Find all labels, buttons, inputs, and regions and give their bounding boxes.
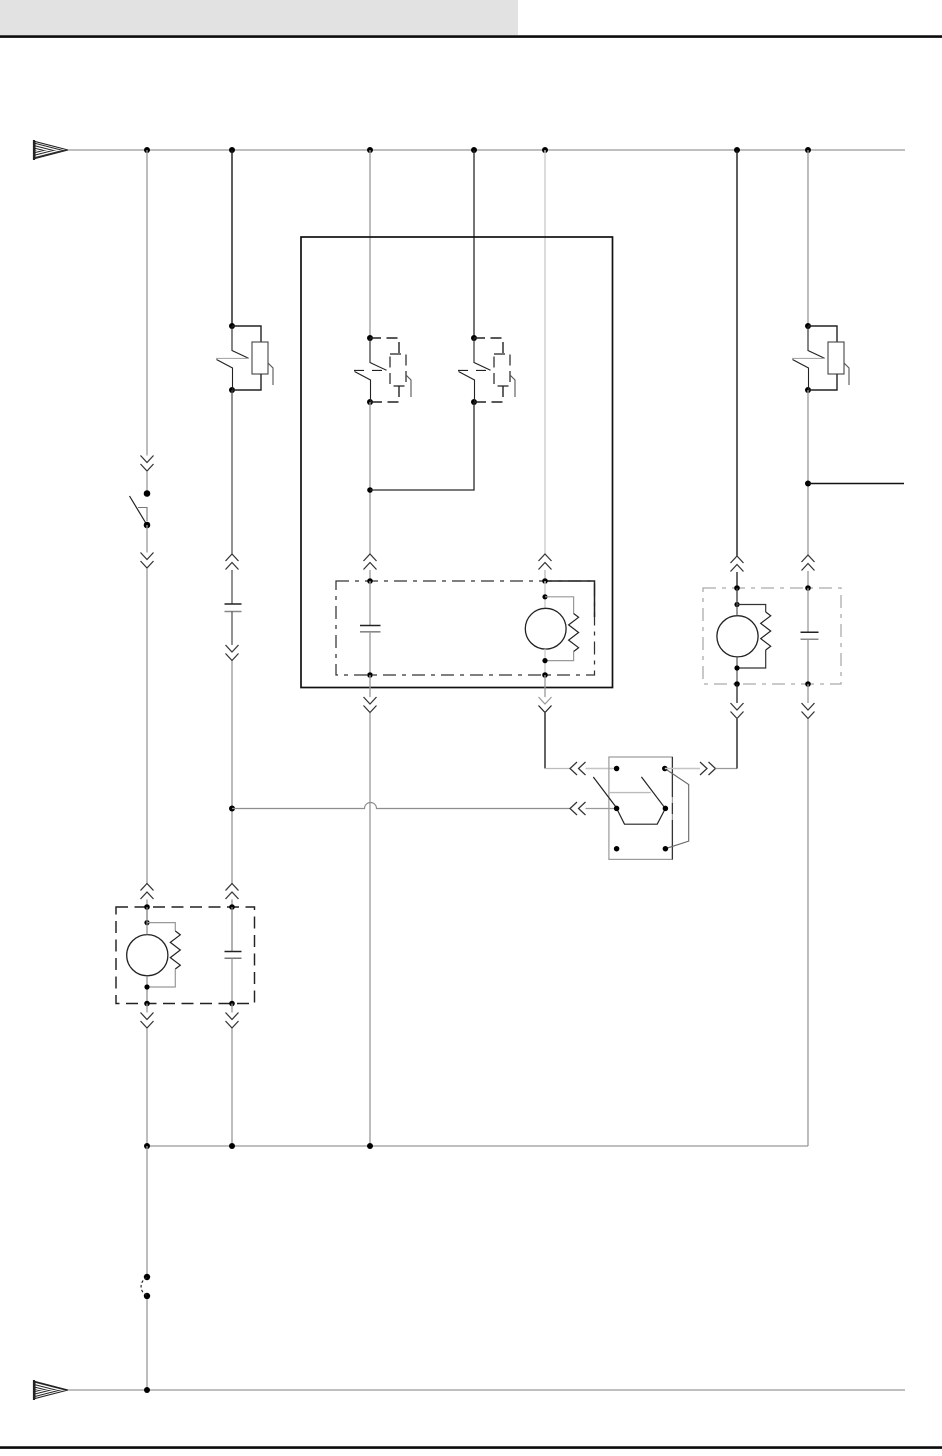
wire down to relay feed junction: [231, 661, 233, 884]
motor M2 with resistor: [525, 581, 578, 675]
wire: bottom ground bus y=1390: [68, 1389, 905, 1391]
connector pair (right chevrons): [700, 762, 716, 775]
wire: [369, 402, 371, 554]
node on top bus at x=147: [144, 147, 150, 153]
wire up to x=737: [716, 768, 738, 770]
capacitor C2: [360, 625, 381, 627]
node on top bus at x=232: [229, 147, 235, 153]
switch SW1 stop bracket: [138, 508, 147, 522]
node bus x=232: [229, 1143, 235, 1149]
wire: [231, 900, 233, 952]
switch SW1 blade (open): [130, 496, 148, 525]
connector pair (down chevrons) on x=370: [364, 697, 377, 713]
inner dashed module box: [336, 581, 595, 675]
splice joint on x=147: [141, 1274, 150, 1299]
node bus x=370: [367, 1143, 373, 1149]
node on top bus at x=808: [805, 147, 811, 153]
wire: [544, 570, 546, 581]
node on top bus at x=737: [734, 147, 740, 153]
connector pair (left chevrons) on tap wire: [570, 802, 586, 815]
wire: tap y=808.5 from x=232 to relay with hop over x=370: [232, 803, 570, 809]
wire: x=545 from bus into control box (light): [544, 150, 546, 554]
wire: [146, 1029, 148, 1147]
wire: [369, 632, 371, 675]
wire: splice to bottom bus: [146, 1299, 148, 1390]
wire: CB3 leg down and over to x=370: [370, 402, 474, 490]
node at (808,483.5): [805, 481, 811, 487]
node inner box bottom x=370: [367, 672, 373, 678]
node bottom bus x=147: [144, 1387, 150, 1393]
motor M1 with resistor: [127, 907, 181, 1004]
wire: [369, 581, 371, 626]
wire: [807, 571, 809, 588]
wire: x=370 out of boxes: [369, 675, 371, 697]
wire: [807, 390, 809, 555]
switch SW1 upper contact: [144, 490, 151, 497]
connector pair (up chevrons) on x=808: [802, 555, 815, 571]
node on top bus at x=370: [367, 147, 373, 153]
circuit breaker CB1: [216, 323, 273, 393]
bus arrow symbol (bottom ground bus): [34, 1380, 68, 1400]
wire: long run down to left motor box: [146, 569, 148, 884]
capacitor C3: [231, 907, 233, 952]
connector pair (up chevrons) on x=737: [731, 556, 744, 572]
circuit breaker CB3 (dashed): [458, 335, 515, 405]
connector pair (down chevrons) on x=808: [802, 703, 815, 719]
node right box top x=808: [805, 585, 811, 591]
relay RLY1: [593, 757, 688, 859]
left motor dashed box: [116, 907, 255, 1004]
connector pair (left chevrons) on relay feed: [570, 762, 586, 775]
wire: x=147 from bus to connector: [146, 150, 148, 456]
wire: x=808 down to ground bus: [807, 719, 809, 1146]
wire: x=737 from bus to right motor box: [736, 150, 738, 556]
control unit box U1: [301, 237, 613, 688]
page header gray bar: [0, 0, 518, 35]
node bus x=147: [144, 1143, 150, 1149]
node inner box top x=370: [367, 578, 373, 584]
node right box bottom x=737: [734, 681, 740, 687]
wire: [231, 1004, 233, 1013]
node left box top x=232: [229, 904, 235, 910]
node right box bottom x=808: [805, 681, 811, 687]
capacitor C1 (in-line connector plates): [225, 603, 242, 605]
node on top bus at x=545: [542, 147, 548, 153]
wire: x=808 from bus to breaker CB4: [807, 150, 809, 326]
wire into relay terminal: [586, 808, 618, 810]
wire: [736, 572, 738, 605]
node inner box top x=545: [542, 578, 548, 584]
wire: [146, 525, 148, 553]
connector pair (up chevrons) on x=545: [539, 554, 552, 570]
wire into relay terminal: [586, 768, 618, 770]
connector pair (down chevrons) on x=737: [731, 703, 744, 719]
ground return bus y=1146: [147, 1145, 808, 1147]
wire: [231, 390, 233, 554]
wire: [146, 1004, 148, 1013]
wire: [369, 570, 371, 581]
circuit breaker CB4: [792, 323, 849, 393]
right dashed module box: [703, 588, 841, 684]
wire from relay right terminal out: [665, 768, 700, 770]
node inner box bottom x=545: [542, 672, 548, 678]
header rule: [0, 35, 942, 38]
motor M3 with resistor: [717, 588, 771, 684]
wire: x=545 down and right to relay: [544, 713, 546, 769]
wire: [231, 1029, 233, 1147]
connector pair (up chevrons) into motor box: [226, 884, 239, 900]
wire: x=474 from bus to breaker CB3: [473, 150, 475, 338]
connector pair (up chevrons) on x=370: [364, 554, 377, 570]
connector pair (up chevrons) on x=232: [226, 554, 239, 570]
connector pair (down chevrons) on x=232: [226, 1013, 239, 1029]
wire: [146, 472, 148, 494]
node left box bottom x=147: [144, 1001, 150, 1007]
bus arrow symbol (top hot bus, from page left): [34, 140, 68, 160]
node left box bottom x=232: [229, 1001, 235, 1007]
node at (370,490) joining CB3 leg: [367, 487, 373, 493]
connector pair (down chevrons) on x=545: [539, 697, 552, 713]
wire: [231, 612, 233, 646]
node left box top x=147: [144, 904, 150, 910]
node at x=232 y=808.5 (tap to relay): [229, 806, 235, 812]
wire: x=232 from bus to breaker CB1: [231, 150, 233, 326]
circuit breaker CB2 (dashed): [354, 335, 411, 405]
capacitor C4: [807, 588, 809, 632]
connector pair (down chevrons) on x=232: [226, 645, 239, 661]
wire: [231, 570, 233, 604]
connector pair (up chevrons) into motor box: [141, 884, 154, 900]
connector pair (down chevrons) on x=147: [141, 456, 154, 472]
wire: stub to right at y=483.5: [808, 483, 904, 485]
wire: [146, 900, 148, 923]
wire: x=147 below bus to splice: [146, 1146, 148, 1274]
wire: x=737 down to relay output: [736, 719, 738, 769]
node on top bus at x=474: [471, 147, 477, 153]
node right box top x=737: [734, 585, 740, 591]
wire: top supply bus y=150: [68, 149, 905, 151]
wire: [736, 684, 738, 703]
switch SW1 lower contact: [144, 522, 151, 529]
wire: x=545 out of boxes: [544, 675, 546, 697]
connector pair (down chevrons) on x=147: [141, 1013, 154, 1029]
footer rule: [0, 1446, 942, 1449]
wire: [807, 684, 809, 703]
wire: x=370 from bus to breaker CB2: [369, 150, 371, 338]
wire: x=370 long run to bottom bus: [369, 713, 371, 1146]
connector pair (down chevrons) on x=147: [141, 553, 154, 569]
inner module solid corner segment: [545, 581, 595, 617]
